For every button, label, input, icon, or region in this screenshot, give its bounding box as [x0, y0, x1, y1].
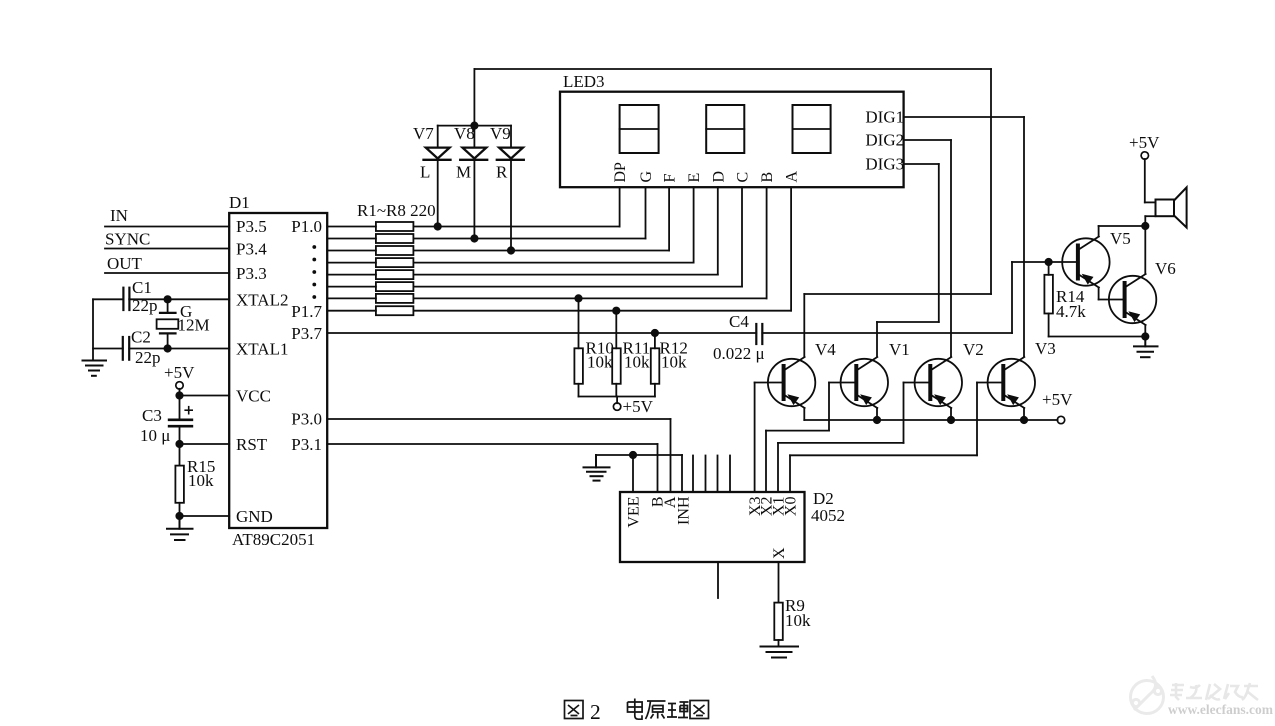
wire seg B — [766, 187, 768, 298]
wire V1 base to X2 — [766, 383, 856, 493]
wire VCC — [180, 395, 230, 397]
junction GND/R15 — [175, 512, 183, 520]
svg-text:VEE: VEE — [626, 497, 643, 528]
transistor V6 — [1109, 274, 1156, 325]
capacitor C2 — [93, 328, 161, 368]
D2 pin labels rotated — [626, 496, 800, 559]
svg-text:22p: 22p — [135, 348, 161, 367]
svg-text:+5V: +5V — [1042, 390, 1073, 409]
wire P3.7 line — [327, 262, 1012, 333]
junction crystal-XTAL2 — [164, 295, 172, 303]
wire V4 emitter — [803, 408, 805, 420]
svg-text:www.elecfans.com: www.elecfans.com — [1168, 702, 1274, 717]
wire seg D — [717, 187, 719, 274]
svg-text:P3.5: P3.5 — [236, 217, 267, 236]
wire XTAL1 — [129, 348, 229, 350]
svg-text:L: L — [420, 163, 430, 182]
ground (V6) — [1134, 337, 1158, 358]
node IN — [105, 206, 229, 227]
junction V1 emitter rail — [873, 416, 881, 424]
resistor R3 row P1.2 — [327, 246, 669, 255]
watermark elecfans — [1131, 676, 1274, 717]
ground (VEE) — [584, 455, 610, 481]
wire left vertical to ground — [92, 299, 94, 360]
svg-text:P3.7: P3.7 — [291, 324, 322, 343]
resistor R5 row P1.4 — [327, 270, 718, 279]
svg-text:DIG3: DIG3 — [865, 155, 904, 174]
power +5V (speaker) — [1129, 133, 1160, 202]
wire P3.1 to B — [327, 444, 657, 492]
node DIG2 — [865, 131, 951, 357]
svg-text:+5V: +5V — [164, 363, 195, 382]
node SYNC — [105, 230, 229, 249]
svg-text:INH: INH — [676, 496, 693, 525]
svg-text:V2: V2 — [963, 340, 984, 359]
resistor R15 10k — [175, 444, 215, 516]
capacitor C3 10u — [140, 396, 192, 446]
svg-text:DP: DP — [612, 162, 629, 183]
svg-text:DIG1: DIG1 — [865, 108, 904, 127]
svg-text:GND: GND — [236, 507, 273, 526]
digit 1 — [620, 105, 659, 153]
svg-text:V4: V4 — [815, 340, 836, 359]
wire V2 emitter — [950, 408, 952, 420]
wire V1 emitter — [876, 408, 878, 420]
wire V2 base to X1 — [778, 383, 930, 493]
resistor R8 row P1.7 — [327, 306, 791, 315]
wire V6 emitter to ground — [1144, 325, 1146, 337]
digit 2 — [706, 105, 744, 153]
svg-text:M: M — [456, 163, 471, 182]
svg-text:XTAL2: XTAL2 — [236, 291, 288, 310]
svg-text:V1: V1 — [889, 340, 910, 359]
LED V7 label L — [413, 124, 451, 227]
junction VEE — [629, 451, 637, 459]
wire seg E — [693, 187, 695, 262]
svg-text:V9: V9 — [490, 124, 511, 143]
svg-text:VCC: VCC — [236, 387, 271, 406]
power +5V (pullups) — [613, 397, 653, 417]
wire V5 emitter to V6 base — [1099, 288, 1125, 300]
wire LED anode rail — [438, 125, 511, 127]
node DIG3 — [865, 155, 938, 357]
junction speaker node — [1141, 222, 1149, 230]
wire XTAL2 — [129, 298, 229, 300]
svg-text:LED3: LED3 — [563, 72, 605, 91]
junction R14 top — [1045, 258, 1053, 266]
svg-text:P3.4: P3.4 — [236, 240, 267, 259]
wire R10-R12 bottom rail — [579, 396, 655, 398]
svg-text:RST: RST — [236, 435, 268, 454]
resistor R12 10k — [651, 333, 688, 397]
resistor R1 row P1.0 — [327, 222, 619, 231]
svg-text:V5: V5 — [1110, 229, 1131, 248]
display LED3 box — [560, 92, 904, 188]
svg-text:C4: C4 — [729, 312, 749, 331]
transistor V4 — [768, 357, 815, 408]
wire V5 base from P3.7 — [1012, 261, 1078, 263]
wire seg F — [668, 187, 670, 250]
svg-text:IN: IN — [110, 206, 128, 225]
mux D2 4052 box — [620, 492, 805, 562]
transistor V1 — [841, 357, 888, 408]
svg-text:P1.7: P1.7 — [291, 302, 322, 321]
junction crystal-XTAL1 — [164, 344, 172, 352]
wire seg C — [741, 187, 743, 286]
svg-text:10 μ: 10 μ — [140, 426, 170, 445]
dots P1.1-P1.6 ellipsis — [312, 245, 316, 299]
resistor R4 row P1.3 — [327, 258, 693, 267]
svg-text:F: F — [662, 174, 679, 183]
transistor V5 — [1062, 237, 1109, 288]
svg-text:+5V: +5V — [1129, 133, 1160, 152]
resistor R2 row P1.1 — [327, 234, 645, 243]
svg-text:SYNC: SYNC — [105, 230, 150, 249]
svg-text:DIG2: DIG2 — [865, 131, 904, 150]
power +5V (emitter rail) — [1042, 390, 1073, 424]
wire seg G — [645, 187, 647, 238]
svg-text:D1: D1 — [229, 193, 250, 212]
svg-text:4.7k: 4.7k — [1056, 302, 1086, 321]
chip D1 labels — [229, 193, 322, 549]
svg-text:D: D — [710, 171, 727, 183]
wire seg A — [790, 187, 792, 311]
capacitor C1 — [93, 278, 158, 315]
svg-text:C: C — [735, 172, 752, 183]
svg-text:P3.3: P3.3 — [236, 264, 267, 283]
resistor R14 4.7k — [1044, 262, 1086, 337]
svg-text:B: B — [759, 172, 776, 183]
junction RST/R15 — [175, 440, 183, 448]
svg-text:C2: C2 — [131, 328, 151, 347]
capacitor C4 0.022u — [713, 312, 765, 363]
svg-text:2: 2 — [590, 700, 601, 724]
junction VCC/C3 — [175, 391, 183, 399]
wire P3.0 to A — [327, 419, 670, 492]
transistor V2 — [915, 357, 962, 408]
junction R11 — [612, 307, 620, 315]
crystal G 12M — [157, 299, 210, 348]
svg-text:R1~R8 220: R1~R8 220 — [357, 201, 436, 220]
ground (left of C1 C2) — [83, 361, 107, 376]
wire GND pin — [180, 515, 230, 517]
resistor R6 row P1.5 — [327, 282, 742, 291]
svg-text:C3: C3 — [142, 406, 162, 425]
speaker — [1145, 187, 1187, 227]
junction V7 on P1.0 row — [434, 222, 442, 230]
resistor R9 10k — [774, 596, 811, 647]
svg-text:+5V: +5V — [623, 397, 654, 416]
svg-text:10k: 10k — [785, 611, 811, 630]
LED V9 label R — [490, 124, 524, 251]
wire V5 collector — [1099, 226, 1146, 237]
wire VEE INH ground — [596, 455, 682, 492]
stub bottom pin — [717, 562, 719, 598]
svg-text:V6: V6 — [1155, 259, 1176, 278]
LED V8 label M — [454, 69, 487, 239]
junction V6 emitter ground — [1141, 332, 1149, 340]
wire V6 collector — [1144, 226, 1146, 274]
junction V9 on P1.2 row — [507, 246, 515, 254]
svg-text:P3.0: P3.0 — [291, 410, 322, 429]
svg-text:10k: 10k — [661, 353, 687, 372]
svg-text:P1.0: P1.0 — [291, 217, 322, 236]
junction V2 emitter rail — [947, 416, 955, 424]
svg-text:4052: 4052 — [811, 506, 845, 525]
ground (under R15) — [167, 516, 193, 540]
node OUT — [105, 254, 229, 273]
svg-text:V3: V3 — [1035, 339, 1056, 358]
wire V3 base to X0 — [790, 383, 1003, 493]
caption 图 2 电原理图 — [565, 699, 709, 725]
power +5V (VCC) — [164, 363, 195, 396]
resistor R7 row P1.6 — [327, 294, 766, 303]
svg-text:10k: 10k — [624, 353, 650, 372]
wire emitter rail — [804, 419, 1057, 421]
junction R12 — [651, 329, 659, 337]
wire R14 bottom to V6 emitter — [1049, 336, 1146, 338]
digit 3 — [793, 105, 831, 153]
svg-text:E: E — [686, 173, 703, 183]
LED3 pin labels rotated — [612, 162, 801, 183]
svg-text:X0: X0 — [783, 497, 800, 517]
wire V4 base to X3 — [755, 383, 784, 493]
ground (R9) — [761, 647, 799, 658]
svg-text:V7: V7 — [413, 124, 434, 143]
node DIG1 — [865, 108, 1024, 357]
wire top common to V4 collector — [474, 68, 991, 70]
svg-text:XTAL1: XTAL1 — [236, 340, 288, 359]
unused pin stubs — [693, 456, 730, 493]
wire RST — [180, 443, 230, 445]
junction V3 emitter rail — [1020, 416, 1028, 424]
svg-text:A: A — [784, 171, 801, 183]
svg-text:R: R — [496, 163, 508, 182]
resistor R11 10k — [612, 311, 650, 397]
junction V8 on P1.1 row — [470, 234, 478, 242]
svg-text:AT89C2051: AT89C2051 — [232, 530, 315, 549]
svg-text:22p: 22p — [132, 296, 158, 315]
svg-text:10k: 10k — [188, 471, 214, 490]
svg-text:P3.1: P3.1 — [291, 435, 322, 454]
transistor V3 — [988, 357, 1035, 408]
svg-text:OUT: OUT — [107, 254, 143, 273]
MCU D1 box — [229, 213, 327, 528]
svg-text:C1: C1 — [132, 278, 152, 297]
svg-text:12M: 12M — [178, 316, 210, 335]
junction V8 top rail — [470, 122, 478, 130]
svg-text:10k: 10k — [587, 353, 613, 372]
wire X pin to R9 — [778, 562, 780, 603]
resistor R10 10k — [574, 298, 613, 396]
wire V3 emitter — [1023, 408, 1025, 420]
svg-text:0.022 μ: 0.022 μ — [713, 344, 765, 363]
junction R10 — [574, 294, 582, 302]
svg-text:X: X — [771, 547, 788, 559]
svg-text:G: G — [638, 171, 655, 183]
wire seg DP — [619, 187, 621, 226]
